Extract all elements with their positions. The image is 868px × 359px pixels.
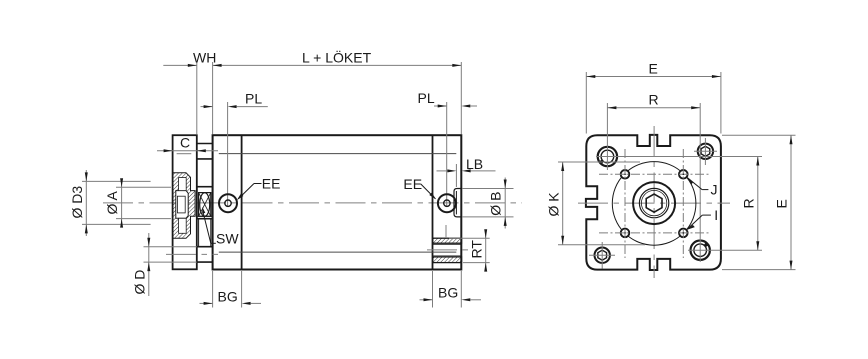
RT dimension [449,237,490,239]
corner hole A bottom-right [691,241,710,260]
svg-text:WH: WH [193,50,216,66]
corner hole B top-right (socket screw) [698,144,713,159]
corner hole B bottom-left (socket screw) [595,248,610,263]
svg-text:C: C [180,135,190,151]
I label [702,214,711,216]
nut female thread [177,196,185,213]
EE port left [219,194,237,212]
EE label left [254,183,262,185]
nut upper relief slot [179,178,187,191]
C dimension [157,150,218,152]
centerline piston axis [103,202,522,204]
flange plate [173,135,197,269]
hole centerlines gray [606,103,608,170]
E right dimension [722,134,796,136]
svg-text:Ø K: Ø K [546,192,562,217]
svg-text:Ø A: Ø A [104,190,120,214]
PL left dimension [201,106,213,108]
wrench flat cross [199,193,211,217]
body lower groove line [219,251,456,253]
E top dimension [585,72,587,134]
bottom boss centerline [166,253,218,255]
EE port right [438,194,456,212]
body upper groove line [219,153,456,155]
svg-text:E: E [649,61,658,77]
RT thread minor lines [433,243,462,245]
OB dimension [462,188,514,190]
RT thread hatched bands [433,238,462,243]
piston rod section with wrench flats [197,187,213,219]
bolt circle [612,162,696,246]
wrench flat ellipse SW [200,193,210,217]
svg-text:EE: EE [262,176,281,192]
svg-text:Ø B: Ø B [488,192,504,216]
svg-text:PL: PL [245,91,262,107]
hex socket [646,194,662,212]
BG left dimension [212,271,214,308]
R top dimension [607,107,700,109]
svg-text:PL: PL [418,90,435,106]
svg-text:R: R [649,92,659,108]
svg-text:J: J [711,182,718,198]
rear cap line [432,135,434,269]
cylinder body [213,135,462,269]
port extension line right [446,102,448,207]
rod nut (hatched section) [173,173,195,239]
corner hole A top-left [598,147,617,166]
J/I thread hole centerlines [599,149,709,258]
front cap line [241,135,243,269]
OD3 dimension [82,180,151,182]
svg-text:SW: SW [216,230,239,246]
svg-text:Ø D: Ø D [131,270,147,295]
bottom boss between flange and body [197,247,213,262]
central bore circles [633,182,675,224]
OK dimension [558,161,640,163]
RT hole centerlines [445,225,447,238]
nut hex recess [176,191,188,219]
L + LOKET dimension [213,64,462,66]
SW label [211,242,216,244]
top boss between flange and body [197,144,213,159]
svg-text:Ø D3: Ø D3 [69,186,85,219]
BG right dimension [432,271,434,308]
port extension line left [227,102,229,207]
end plate outline with sensor slots [586,135,721,270]
svg-text:EE: EE [403,176,422,192]
R right dimension [757,157,759,251]
WH extension lines [196,62,198,134]
svg-text:R: R [741,198,757,208]
EE label right [421,184,436,199]
rear port pad [454,189,462,217]
svg-text:I: I [714,207,718,223]
svg-text:L + LÖKET: L + LÖKET [302,49,372,66]
svg-text:BG: BG [218,289,238,305]
svg-text:LB: LB [466,156,483,172]
svg-text:E: E [774,199,790,208]
OA dimension [116,186,171,188]
rod collar below [198,219,200,247]
nut lower relief slot [179,218,187,233]
PL right dimension [434,105,447,107]
WH dimension [163,64,197,66]
J/I thread holes [621,170,630,179]
J label [702,189,708,191]
OD dimension [144,246,197,248]
LB dimension [455,164,457,187]
svg-text:BG: BG [438,285,458,301]
center cross lines [653,126,655,278]
svg-text:RT: RT [469,240,485,259]
